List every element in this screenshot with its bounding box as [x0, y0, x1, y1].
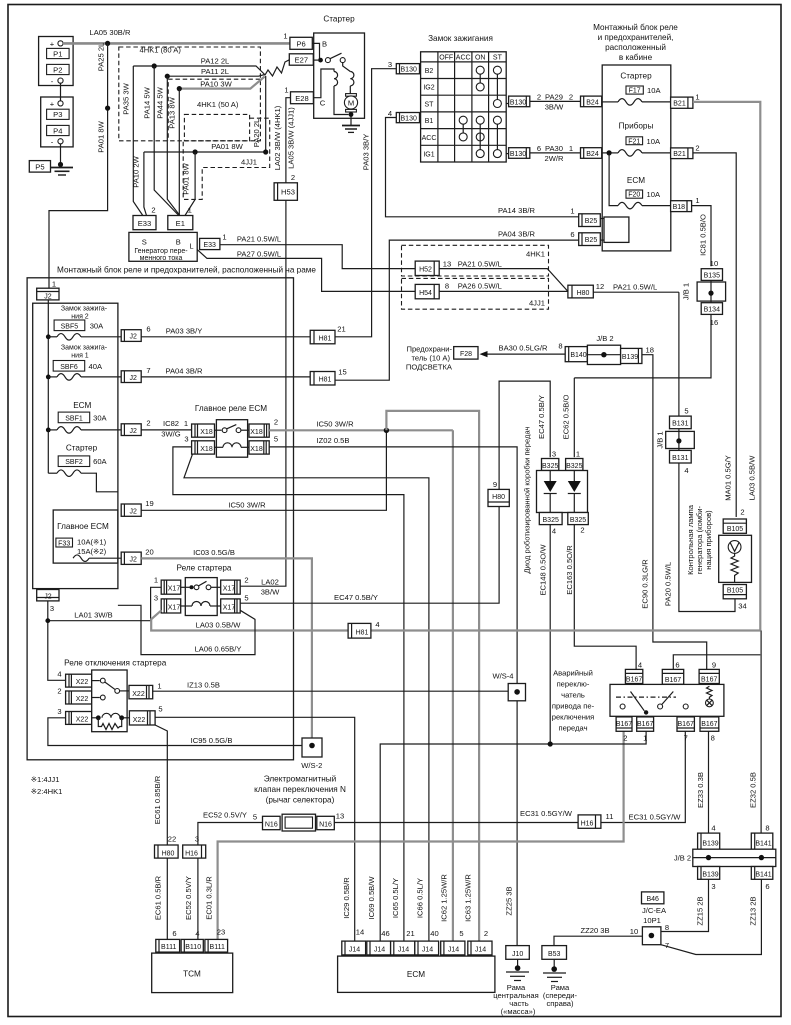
connector B167 pin6 [662, 661, 683, 685]
wire E27 to switch [313, 59, 318, 61]
svg-text:IC50 3W/R: IC50 3W/R [316, 420, 354, 429]
svg-text:J14: J14 [475, 947, 486, 954]
connector H80 pin9 [488, 480, 509, 507]
wire B21-1 LA03 gray right [693, 102, 760, 631]
connector J2 pin2 [121, 419, 150, 436]
starter box [314, 33, 365, 118]
svg-text:EC47 0.5B/Y: EC47 0.5B/Y [334, 593, 378, 602]
svg-text:30A: 30A [90, 321, 104, 330]
ground B53 label [543, 983, 578, 1008]
node EC148 joins [548, 741, 553, 746]
connector E28 [284, 86, 313, 104]
svg-text:ния 1: ния 1 [71, 353, 89, 360]
svg-text:X22: X22 [76, 679, 89, 686]
connector E33 top [133, 206, 156, 230]
svg-text:ZZ15 2B: ZZ15 2B [696, 896, 705, 925]
svg-text:30A: 30A [93, 413, 107, 422]
svg-text:2: 2 [623, 734, 627, 743]
svg-text:PA44 5W: PA44 5W [156, 86, 165, 118]
wire PA04 3B/R B25-6 to H81-15 [335, 240, 579, 380]
wire IC82 3W/G to X18-1 [141, 419, 191, 439]
wire IC66 path X18-3 diag [184, 454, 429, 941]
svg-text:E33: E33 [203, 242, 216, 249]
svg-text:H16: H16 [185, 850, 198, 857]
svg-text:4: 4 [195, 929, 199, 938]
svg-text:IC69 0.5B/W: IC69 0.5B/W [367, 876, 376, 920]
svg-text:IC95 0.5G/B: IC95 0.5G/B [191, 736, 233, 745]
wire PA01 8W vertical [182, 152, 196, 216]
svg-text:E1: E1 [176, 219, 185, 228]
wire IC50 3W/R from X18-2 [269, 420, 453, 431]
svg-text:X18: X18 [250, 446, 263, 453]
splice W/S-2 [301, 738, 322, 770]
lamp component B105 Контрольная лампа [686, 504, 752, 610]
wire table ST to B130 right [506, 103, 508, 105]
svg-text:B325: B325 [542, 463, 558, 470]
wire IZ02 0.5B to W/S-4 [269, 436, 517, 684]
svg-text:1: 1 [188, 206, 192, 215]
svg-text:4HK1 (50 A): 4HK1 (50 A) [197, 100, 239, 109]
svg-text:EZ32 0.5B: EZ32 0.5B [749, 772, 758, 808]
svg-text:7: 7 [684, 734, 688, 743]
svg-text:60A: 60A [93, 457, 107, 466]
fuse label Предохранитель ПОДСВЕТКА [406, 345, 453, 372]
svg-text:P3: P3 [53, 110, 62, 119]
fuse SBF5 Замок зажигания 2 [46, 306, 121, 341]
connector B167 pin2 [616, 717, 632, 743]
svg-text:※2:4HK1: ※2:4HK1 [31, 787, 63, 796]
svg-text:9: 9 [712, 661, 716, 670]
svg-text:B1: B1 [425, 118, 434, 125]
svg-text:9: 9 [493, 480, 497, 489]
svg-text:4JJ1: 4JJ1 [241, 158, 257, 167]
connector H16 pin3 [183, 835, 206, 859]
svg-text:B141: B141 [755, 840, 771, 847]
svg-text:ECM: ECM [627, 176, 645, 185]
frame relay block box [27, 278, 293, 760]
connector J2 pin6 [121, 325, 150, 342]
wire EC52 0.5V/Y H16 to TCM B110-4 [184, 858, 198, 939]
svg-text:PA01 8W: PA01 8W [97, 120, 106, 152]
svg-text:10A: 10A [647, 190, 661, 199]
connector H53 [274, 173, 297, 200]
svg-text:1: 1 [576, 450, 580, 459]
svg-text:1: 1 [283, 32, 287, 41]
connector B167 pin4 [625, 661, 642, 684]
svg-text:22: 22 [168, 835, 176, 844]
wire EC90 0.3LG/R [641, 355, 707, 670]
wire PA03 3B/Y vertical [335, 69, 396, 337]
connector J10 [506, 946, 530, 960]
svg-text:H81: H81 [319, 335, 332, 342]
wire EC62 horizontal [574, 377, 679, 379]
svg-text:23: 23 [217, 928, 225, 937]
connector H16 pin11 [578, 815, 601, 828]
wire LA02 H53 to X17-2 [240, 200, 286, 586]
svg-text:EC52 0.5V/Y: EC52 0.5V/Y [184, 876, 193, 920]
svg-text:PA25 2L: PA25 2L [97, 43, 106, 72]
svg-text:B111: B111 [161, 944, 176, 951]
svg-text:X18: X18 [250, 429, 263, 436]
svg-text:PA35 3W: PA35 3W [122, 82, 131, 114]
svg-text:2: 2 [291, 173, 295, 182]
svg-text:1: 1 [154, 576, 158, 585]
node starter B [318, 58, 323, 63]
svg-text:EC148 0.5O/W: EC148 0.5O/W [539, 544, 548, 596]
svg-text:H54: H54 [419, 290, 432, 297]
TCM box [152, 953, 233, 993]
dashed box 4HK1 (80 A) [119, 46, 261, 141]
wire EC47 0.5B/Y X17-5 to H80-9 [240, 507, 499, 604]
wire EC31 0.5GY/W N16 to H16-11 to B167-7 [334, 732, 685, 823]
svg-text:B105: B105 [727, 587, 743, 594]
svg-text:ON: ON [475, 55, 486, 62]
svg-text:X22: X22 [133, 717, 146, 724]
svg-text:B: B [176, 237, 181, 246]
svg-text:EC61 0.5B/R: EC61 0.5B/R [154, 875, 163, 920]
wire ZZ15 2B B139-3 to B46-8 [661, 879, 709, 931]
wire PA11 2L [167, 67, 265, 76]
svg-text:LA05 30B/R: LA05 30B/R [90, 28, 131, 37]
svg-text:IZ02 0.5B: IZ02 0.5B [317, 436, 350, 445]
svg-text:Контрольная лампа: Контрольная лампа [686, 504, 695, 575]
connector B25 pin1 [579, 214, 601, 227]
ECM connector J14 pin5 [441, 929, 465, 955]
svg-text:Стартер: Стартер [323, 15, 355, 24]
wire EZ32 0.5B B141-8 up [749, 631, 762, 834]
svg-text:3: 3 [50, 604, 54, 613]
svg-text:передач: передач [558, 724, 587, 733]
diode module B325 [537, 450, 589, 536]
svg-text:Замок зажига-: Замок зажига- [61, 306, 108, 313]
ground J10 [506, 959, 529, 980]
svg-text:4HK1: 4HK1 [526, 250, 545, 259]
connector F28 [454, 347, 478, 360]
svg-text:IC65 0.5L/Y: IC65 0.5L/Y [391, 878, 400, 918]
svg-text:PA20 0.5W/L: PA20 0.5W/L [664, 562, 673, 606]
connector B21 pin2 [671, 143, 700, 158]
wire IC50 branch to IC63 [386, 411, 479, 941]
connector N16 right [317, 812, 344, 830]
wire zigzag to E27 [265, 60, 290, 76]
svg-text:EC52 0.5V/Y: EC52 0.5V/Y [203, 811, 247, 820]
wire IC65 path X18-3 left [173, 447, 404, 941]
ECM box [338, 956, 495, 992]
svg-text:B325: B325 [566, 463, 582, 470]
svg-text:B139: B139 [702, 871, 718, 878]
svg-text:H81: H81 [356, 630, 369, 637]
svg-text:1: 1 [695, 93, 699, 102]
svg-text:6: 6 [675, 661, 679, 670]
svg-text:12: 12 [596, 282, 604, 291]
connector B24 pin2 [581, 96, 602, 107]
svg-text:BA30 0.5LG/R: BA30 0.5LG/R [499, 344, 548, 353]
wire PA44 5W [156, 76, 180, 215]
svg-text:B131: B131 [672, 455, 688, 462]
svg-text:расположенный: расположенный [605, 43, 666, 52]
svg-text:LA03 0.5B/W: LA03 0.5B/W [748, 455, 757, 501]
wire PA21 0.5W/L to J/B1 [593, 283, 679, 293]
wire coil to motor [349, 86, 351, 94]
svg-text:ST: ST [425, 101, 435, 108]
svg-text:J14: J14 [349, 947, 360, 954]
svg-text:PA21 0.5W/L: PA21 0.5W/L [613, 283, 657, 292]
svg-text:X17: X17 [168, 586, 181, 593]
wire IC03 0.5G/B to W/S-2 [141, 548, 312, 738]
svg-text:B325: B325 [570, 517, 586, 524]
connector B130 ST [509, 96, 530, 107]
svg-text:C: C [320, 99, 326, 108]
fuse SBF2 Стартер [48, 444, 118, 492]
svg-text:X22: X22 [132, 691, 145, 698]
ECM connector J14 pin46 [367, 929, 391, 955]
dashed box 4HK1 (50 A) [168, 79, 260, 140]
svg-text:P6: P6 [296, 40, 305, 49]
svg-text:PA29: PA29 [545, 93, 563, 102]
connector H80 pin22 [155, 835, 179, 859]
dashed box 4HK1 H52 [402, 245, 549, 276]
svg-text:5: 5 [244, 594, 248, 603]
svg-text:1: 1 [157, 682, 161, 691]
svg-text:15A(※2): 15A(※2) [77, 547, 107, 556]
svg-text:в кабине: в кабине [619, 53, 653, 62]
svg-text:4JJ1: 4JJ1 [529, 299, 545, 308]
svg-text:W/S-4: W/S-4 [492, 672, 513, 681]
fuse block box [33, 303, 118, 588]
wire B18 IC81 0.5B/O [692, 206, 711, 267]
svg-text:2: 2 [695, 143, 699, 152]
splice W/S-4 [492, 672, 525, 701]
connector J2 bottom pin3 [37, 590, 59, 614]
wire EZ33 0.3B B167-8 to B139-4 [696, 732, 709, 834]
svg-text:(«масса»): («масса») [501, 1007, 536, 1016]
svg-text:11: 11 [606, 812, 614, 821]
wire EC52 0.5V/Y H16-3 to N16-5 [198, 811, 263, 846]
svg-text:5: 5 [158, 705, 162, 714]
svg-text:19: 19 [145, 499, 153, 508]
TCM connector B111 pin6 [156, 929, 180, 952]
connector B53 [542, 946, 567, 960]
svg-text:F28: F28 [460, 351, 472, 358]
junction B46 box [630, 923, 669, 950]
connector J2 pin7 [121, 366, 150, 383]
wire ZZ13 2B B141-6 to B46-7 [661, 879, 762, 954]
svg-text:B167: B167 [678, 721, 694, 728]
connector X18 pin1 [192, 424, 215, 437]
wire EC61 0.85B/R X22-5 to H80-22 [153, 725, 167, 845]
relay X17 body [181, 578, 221, 616]
svg-text:3: 3 [57, 707, 61, 716]
cabin relay block box [602, 65, 671, 251]
svg-text:LA02 3B/W (4HK1): LA02 3B/W (4HK1) [273, 105, 282, 170]
svg-text:H80: H80 [162, 850, 175, 857]
svg-text:46: 46 [381, 929, 389, 938]
svg-text:2W/R: 2W/R [545, 154, 565, 163]
svg-text:X17: X17 [223, 604, 236, 611]
connector P5 [29, 161, 50, 173]
svg-text:4: 4 [638, 661, 642, 670]
svg-text:J10: J10 [512, 951, 523, 958]
connector J2 pin19 [121, 499, 154, 516]
wire PA10 2W [132, 152, 147, 216]
svg-text:J2: J2 [44, 593, 52, 600]
svg-text:10: 10 [710, 259, 718, 268]
node PA13 [177, 86, 182, 91]
wire LA03 0.5B/W X17-3 through H81-4 [151, 610, 760, 630]
svg-text:Реле стартера: Реле стартера [177, 564, 232, 573]
svg-text:IC03 0.5G/B: IC03 0.5G/B [193, 548, 235, 557]
svg-text:4: 4 [57, 670, 61, 679]
emergency switch label [552, 669, 595, 733]
wire PA10 3W [180, 77, 265, 89]
svg-text:M: M [348, 98, 354, 107]
connector B167 pin9 [699, 661, 719, 684]
TCM connector B110 pin4 [181, 929, 203, 952]
node PA25 junction [105, 106, 110, 111]
svg-text:J14: J14 [422, 947, 433, 954]
svg-text:тель (10 А): тель (10 А) [411, 354, 450, 363]
svg-text:F33: F33 [58, 540, 70, 547]
svg-text:5: 5 [253, 813, 257, 822]
connector H81 pin4 [348, 620, 380, 638]
wire EC62 B325-1 up [573, 378, 575, 457]
svg-text:1: 1 [222, 233, 226, 242]
emergency switch body [610, 684, 724, 716]
connector X22 pin2 [57, 687, 91, 705]
solenoid N16 body [282, 814, 315, 831]
connector B130 IG1 [509, 148, 530, 159]
connector B167 pin8 [700, 717, 719, 743]
svg-text:(рычаг селектора): (рычаг селектора) [266, 796, 335, 805]
svg-text:1: 1 [52, 280, 56, 289]
svg-text:EC01 0.3L/R: EC01 0.3L/R [205, 876, 214, 920]
svg-text:LA06 0.65B/Y: LA06 0.65B/Y [195, 645, 242, 654]
fuse F20 ECM 10A [609, 153, 671, 209]
connector X18 pin3 [184, 435, 214, 455]
svg-text:3: 3 [388, 60, 392, 69]
connector J2 pin20 [121, 548, 154, 565]
svg-text:1: 1 [570, 207, 574, 216]
ignition row labels [422, 68, 437, 159]
wire B21-2 MA01 [693, 153, 736, 517]
svg-text:EC31 0.5GY/W: EC31 0.5GY/W [520, 809, 573, 818]
svg-text:OFF: OFF [439, 55, 453, 62]
svg-text:ACC: ACC [422, 135, 437, 142]
svg-text:B25: B25 [585, 218, 598, 225]
svg-text:W/S-2: W/S-2 [301, 761, 322, 770]
svg-text:F20: F20 [628, 192, 640, 199]
wire LA05 30B/R [63, 28, 290, 43]
svg-text:E27: E27 [295, 56, 309, 65]
svg-text:X22: X22 [76, 717, 89, 724]
dashed box 4JJ1 [183, 118, 270, 199]
svg-text:14: 14 [356, 928, 364, 937]
svg-text:Монтажный блок реле и предохра: Монтажный блок реле и предохранителей, р… [57, 266, 316, 275]
svg-text:H80: H80 [577, 290, 590, 297]
svg-text:B139: B139 [702, 840, 718, 847]
svg-text:6: 6 [537, 144, 541, 153]
connector X22 pin5 [129, 705, 162, 726]
svg-text:H81: H81 [319, 377, 332, 384]
connector B18 pin1 [671, 196, 700, 212]
svg-text:PA21 0.5W/L: PA21 0.5W/L [458, 260, 502, 269]
svg-text:3: 3 [552, 450, 556, 459]
svg-text:3B/W: 3B/W [261, 588, 280, 597]
svg-text:E33: E33 [138, 219, 152, 228]
svg-text:чатель: чатель [561, 691, 585, 700]
svg-text:PA03 3B/Y: PA03 3B/Y [166, 327, 203, 336]
svg-text:B110: B110 [185, 944, 201, 951]
svg-text:LA03 0.5B/W: LA03 0.5B/W [196, 621, 242, 630]
svg-text:J/B 1: J/B 1 [682, 283, 691, 300]
svg-text:PA20 2L: PA20 2L [252, 119, 261, 148]
connector H52 [415, 260, 451, 276]
svg-text:B167: B167 [665, 677, 681, 684]
svg-text:1: 1 [643, 734, 647, 743]
svg-text:B167: B167 [701, 676, 717, 683]
svg-text:P1: P1 [53, 49, 62, 58]
connector J2 pin1 [37, 280, 59, 301]
svg-text:B21: B21 [673, 100, 686, 107]
svg-text:8: 8 [711, 734, 715, 743]
wire EC61 0.5B/R H80 to TCM B111-6 [154, 858, 168, 939]
label LA02 3B/W at X17-2 [261, 578, 280, 597]
svg-text:IC66 0.5L/Y: IC66 0.5L/Y [416, 878, 425, 918]
svg-text:10A: 10A [647, 86, 661, 95]
dashed box 4JJ1 H54 [402, 278, 549, 309]
node PA01 vertical [193, 149, 198, 154]
svg-text:EC163 0.5O/R: EC163 0.5O/R [565, 545, 574, 595]
svg-text:B46: B46 [646, 896, 659, 903]
svg-text:B139: B139 [622, 354, 638, 361]
svg-text:X18: X18 [200, 429, 213, 436]
svg-text:+: + [50, 100, 55, 109]
ground J10 label [493, 983, 539, 1016]
svg-text:Замок зажигания: Замок зажигания [428, 34, 493, 43]
svg-text:PA12 2L: PA12 2L [201, 57, 230, 66]
svg-text:J/C-EA: J/C-EA [642, 906, 667, 915]
wire X22-3 to IC95 [48, 718, 302, 746]
svg-text:B25: B25 [585, 237, 598, 244]
wire PA35 3W [122, 66, 143, 216]
wire PA21 0.5W/L from E33 [220, 235, 415, 269]
svg-text:EC31 0.5GY/W: EC31 0.5GY/W [629, 813, 682, 822]
svg-text:2: 2 [537, 93, 541, 102]
node fuse bus [607, 150, 612, 155]
svg-text:4: 4 [388, 109, 392, 118]
connector X17 pin3 [154, 594, 181, 614]
solenoid label Электромагнитный клапан [254, 775, 346, 805]
svg-text:B21: B21 [673, 151, 686, 158]
svg-text:4: 4 [684, 466, 688, 475]
junction block J/B 1 upper B135 B134 [682, 259, 726, 327]
svg-text:LA05 3B/W (4JJ1): LA05 3B/W (4JJ1) [287, 107, 296, 169]
wire PA29 3B/W [530, 93, 581, 112]
note marks [31, 775, 63, 796]
sub box Главное ECM F33 [53, 510, 121, 563]
svg-text:P4: P4 [53, 126, 62, 135]
node PA01/PA20 [263, 149, 268, 154]
svg-text:ST: ST [493, 55, 503, 62]
svg-text:3: 3 [184, 435, 188, 444]
svg-text:ZZ20 3B: ZZ20 3B [580, 926, 609, 935]
node starter ground [349, 112, 354, 117]
connector H81 pin15 [310, 368, 347, 386]
svg-text:J/B 2: J/B 2 [596, 334, 613, 343]
svg-text:E28: E28 [295, 94, 309, 103]
wire PA20 2L [252, 76, 266, 152]
svg-text:Диод роботизированной коробки: Диод роботизированной коробки передач [523, 426, 532, 573]
